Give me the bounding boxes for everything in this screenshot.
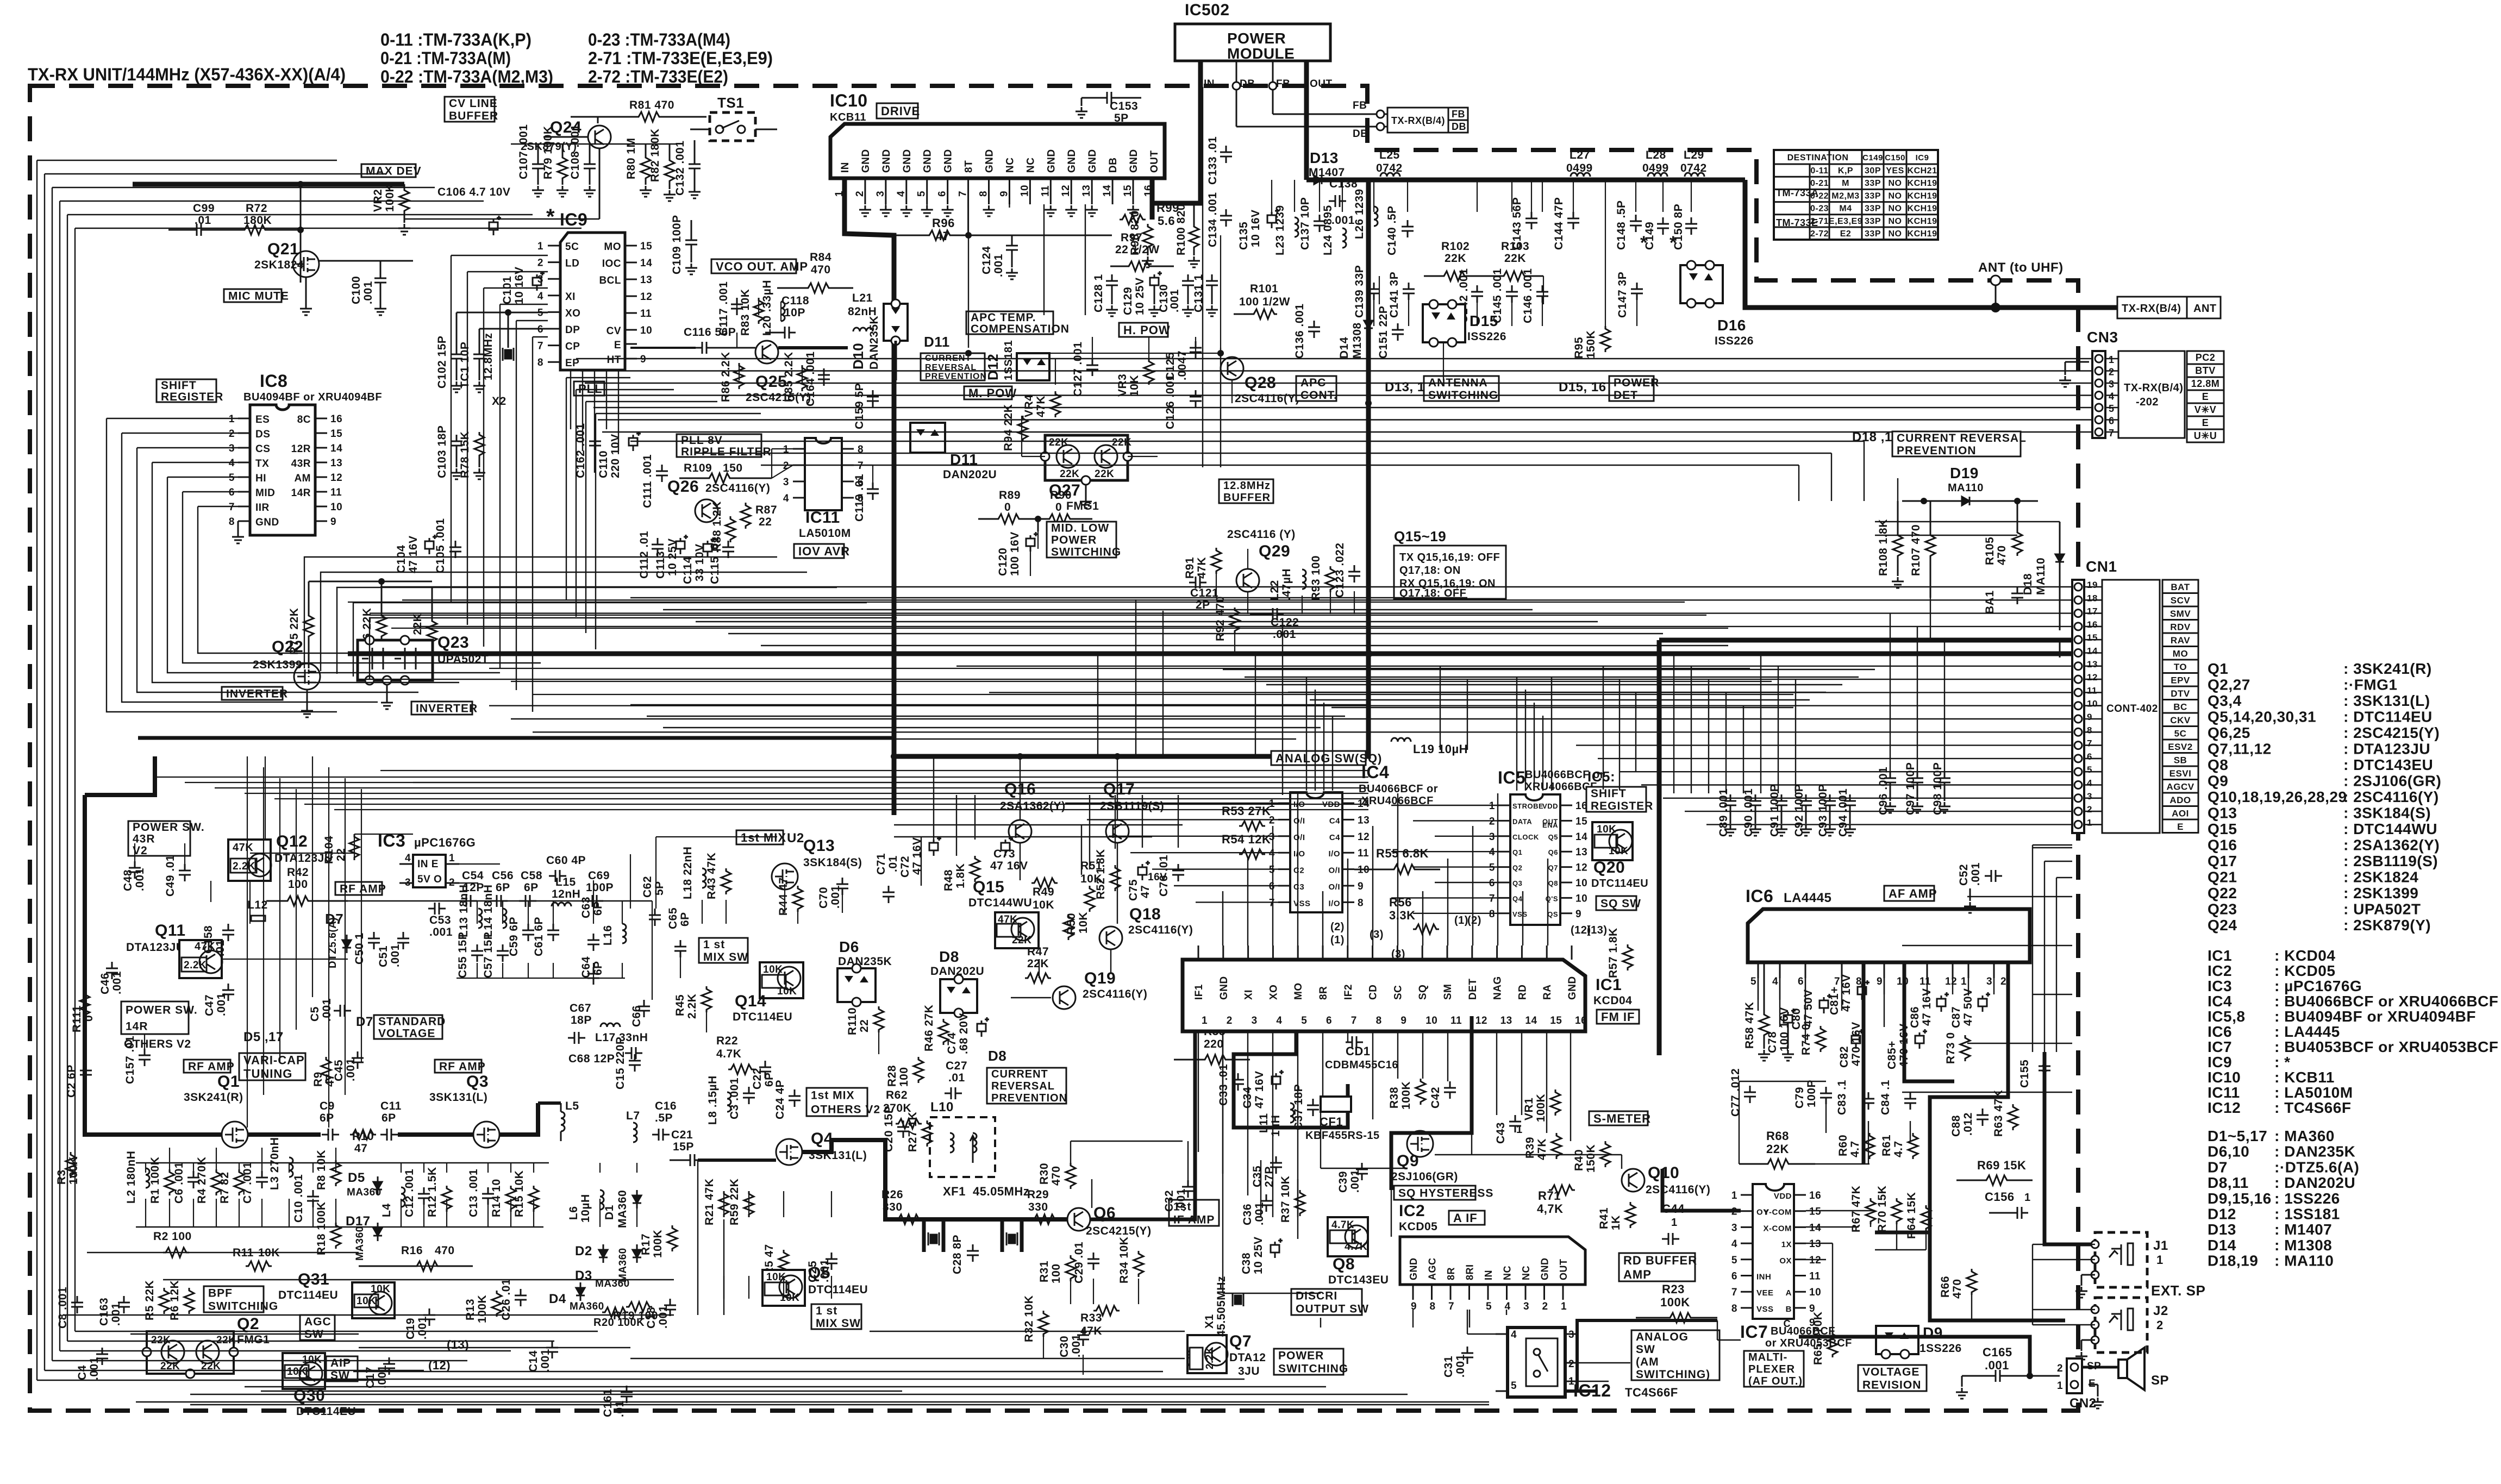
svg-text:R73 0: R73 0 — [1944, 1032, 1957, 1064]
svg-text:.5P: .5P — [655, 1112, 673, 1124]
SQ SW label — [1596, 896, 1636, 910]
svg-text::·DTZ5.6(A): :·DTZ5.6(A) — [2274, 1159, 2359, 1175]
APC TEMP COMPENSATION label — [966, 311, 1053, 334]
svg-text:: 1SS226: : 1SS226 — [2274, 1190, 2340, 1207]
svg-text:REGISTER: REGISTER — [161, 391, 223, 403]
IC8 nested loops — [107, 418, 238, 419]
svg-text:BUFFER: BUFFER — [449, 110, 498, 122]
svg-text:C21: C21 — [671, 1129, 693, 1141]
POWER SW 43R V2 label — [128, 821, 190, 856]
svg-text:RA: RA — [1542, 985, 1553, 1000]
svg-text:PLL: PLL — [578, 382, 603, 396]
svg-text:A IF: A IF — [1453, 1211, 1478, 1225]
svg-text:(13): (13) — [1587, 924, 1608, 936]
svg-text:L6: L6 — [567, 1206, 580, 1220]
svg-text:IC2: IC2 — [1399, 1202, 1425, 1220]
audio amp IC6 chip — [1748, 909, 2030, 962]
svg-text:O/I: O/I — [1328, 882, 1340, 892]
svg-text:AF AMP: AF AMP — [1889, 887, 1937, 900]
svg-text:IN E: IN E — [417, 859, 439, 870]
svg-text:.001: .001 — [992, 254, 1005, 277]
svg-text:22: 22 — [858, 1019, 871, 1032]
svg-text:22K: 22K — [1049, 437, 1068, 448]
svg-text:D3: D3 — [575, 1268, 592, 1283]
svg-text:L27: L27 — [1570, 149, 1590, 161]
RF row lower wires — [87, 1252, 359, 1253]
CN1 zone right verticals — [2032, 845, 2033, 1052]
svg-text:5: 5 — [1731, 1255, 1737, 1266]
svg-text:XI: XI — [565, 291, 576, 303]
svg-text:11: 11 — [1040, 185, 1051, 197]
svg-text:2: 2 — [854, 191, 866, 197]
svg-text:TX-RX(B/4): TX-RX(B/4) — [2124, 382, 2183, 394]
svg-text:POWER: POWER — [1278, 1350, 1324, 1362]
svg-text:R30: R30 — [1038, 1163, 1051, 1185]
svg-text:QS: QS — [1547, 910, 1558, 918]
svg-text:IN: IN — [1204, 78, 1215, 90]
svg-text:.001: .001 — [1175, 1188, 1187, 1212]
svg-text:RD BUFFER: RD BUFFER — [1623, 1254, 1697, 1267]
svg-text:Q3,4: Q3,4 — [2208, 692, 2242, 709]
svg-text:30P: 30P — [1865, 166, 1881, 176]
rf input thick bus — [85, 795, 222, 1135]
svg-text:GND: GND — [922, 149, 934, 173]
svg-text:C106 4.7 10V: C106 4.7 10V — [437, 186, 510, 198]
svg-text:SMV: SMV — [2170, 609, 2191, 619]
svg-text:11: 11 — [330, 487, 342, 498]
svg-text:C73: C73 — [993, 848, 1015, 860]
svg-text:C161: C161 — [602, 1389, 614, 1417]
svg-text:VR1: VR1 — [1523, 1098, 1535, 1120]
svg-text:IC5,8: IC5,8 — [2208, 1008, 2245, 1025]
svg-text:8: 8 — [1376, 1015, 1382, 1026]
svg-text:R34 10K: R34 10K — [1118, 1237, 1130, 1283]
svg-text:8T: 8T — [964, 160, 975, 173]
svg-text:10: 10 — [1425, 1015, 1437, 1026]
svg-text:GND: GND — [984, 149, 996, 173]
svg-text:IC10: IC10 — [830, 91, 868, 110]
svg-text:GND: GND — [1046, 149, 1057, 173]
CN3 feed lines — [576, 358, 2092, 359]
wire rail above R75-77 — [309, 581, 432, 583]
svg-text:47K: 47K — [233, 842, 253, 854]
svg-text:C101: C101 — [501, 276, 514, 304]
thick wire L5 to C16 — [538, 1101, 561, 1105]
svg-text:PLEXER: PLEXER — [1748, 1363, 1795, 1375]
svg-text:D9,15,16: D9,15,16 — [2208, 1190, 2272, 1207]
svg-text:7: 7 — [858, 460, 864, 472]
horizontal lines lower right to CN1 zone — [2033, 847, 2072, 848]
svg-text:: 3SK131(L): : 3SK131(L) — [2343, 692, 2430, 709]
svg-text:R12 1.5K: R12 1.5K — [426, 1167, 439, 1217]
svg-text:C59 6P: C59 6P — [508, 917, 520, 956]
svg-text:C20 15P: C20 15P — [883, 1106, 895, 1152]
IF area wires — [1139, 1219, 1174, 1220]
svg-text:C126 .001: C126 .001 — [1164, 374, 1177, 429]
svg-text:Q4: Q4 — [1512, 894, 1523, 903]
svg-text:R7 82: R7 82 — [218, 1172, 231, 1204]
svg-text:100P: 100P — [1805, 1080, 1818, 1107]
svg-text:MO: MO — [604, 241, 621, 253]
svg-text:2: 2 — [2087, 804, 2092, 815]
svg-text:MO: MO — [1293, 982, 1304, 1000]
svg-text:DS: DS — [255, 429, 270, 440]
svg-text:IC4: IC4 — [2208, 993, 2232, 1010]
svg-text:1: 1 — [2156, 1253, 2164, 1267]
svg-text:2.2K: 2.2K — [233, 861, 255, 872]
svg-text:: DTC114EU: : DTC114EU — [2343, 709, 2433, 725]
svg-text:150K: 150K — [1585, 330, 1597, 359]
svg-text:OUT: OUT — [1149, 150, 1160, 173]
svg-text:8: 8 — [1489, 909, 1495, 920]
svg-text:C82: C82 — [1838, 1046, 1850, 1068]
svg-text:I/O: I/O — [1328, 899, 1340, 908]
svg-text:D12: D12 — [2208, 1206, 2236, 1223]
svg-text:2SC4215(Y): 2SC4215(Y) — [746, 391, 811, 404]
svg-text:Q11: Q11 — [155, 922, 186, 940]
svg-text:3: 3 — [783, 477, 789, 488]
svg-text:4: 4 — [1511, 1329, 1517, 1341]
svg-text:.001: .001 — [429, 926, 453, 938]
svg-text:47 16V: 47 16V — [407, 535, 420, 573]
svg-text:NO: NO — [1889, 204, 1902, 214]
svg-text:5: 5 — [2109, 403, 2115, 414]
svg-text:10K: 10K — [777, 986, 797, 997]
svg-text:KCH19: KCH19 — [1908, 191, 1937, 201]
svg-text:11: 11 — [640, 308, 652, 320]
svg-text:C111 .001: C111 .001 — [641, 454, 654, 508]
svg-text:C120: C120 — [997, 548, 1009, 576]
svg-text:CS: CS — [255, 443, 270, 455]
svg-text:GND: GND — [1567, 976, 1578, 1000]
if amp bias leads — [1070, 1279, 1071, 1304]
svg-text:13: 13 — [1809, 1238, 1821, 1250]
transistor Q14 DTC114EU — [760, 962, 803, 998]
svg-text:C38: C38 — [1240, 1253, 1253, 1274]
svg-text:R100 820: R100 820 — [1175, 204, 1187, 255]
svg-text:O/I: O/I — [1328, 866, 1340, 875]
svg-text:: DTC143EU: : DTC143EU — [2343, 756, 2433, 773]
svg-text:GND: GND — [1540, 1258, 1550, 1281]
lines from IC4 left — [1065, 803, 1278, 804]
1st MIX OTHERS V2 label — [806, 1088, 867, 1116]
svg-text:4.7: 4.7 — [1849, 1141, 1861, 1157]
svg-text:R102: R102 — [1441, 240, 1470, 253]
svg-text:D18: D18 — [2022, 573, 2034, 595]
svg-text:470: 470 — [1050, 1166, 1062, 1186]
svg-text:NO: NO — [1889, 191, 1902, 201]
CN3 signal labels — [2187, 351, 2224, 364]
svg-text:6P: 6P — [524, 881, 539, 894]
svg-text:7: 7 — [1731, 1287, 1737, 1298]
svg-text:L16: L16 — [602, 925, 614, 945]
svg-text:SWITCHING): SWITCHING) — [1636, 1368, 1710, 1381]
svg-text:C6 .001: C6 .001 — [173, 1162, 185, 1204]
transistor Q28 2SC4116 — [1221, 357, 1243, 380]
svg-text:C134 .001: C134 .001 — [1206, 192, 1219, 247]
svg-text:APC TEMP.: APC TEMP. — [971, 311, 1036, 324]
svg-text:C105 .001: C105 .001 — [434, 518, 447, 573]
CN1 receptacle box CONT-402 — [2102, 580, 2160, 833]
capacitor C68 12P — [625, 1047, 642, 1059]
svg-text:M: M — [1842, 179, 1849, 188]
svg-text:L26 1239: L26 1239 — [1353, 189, 1366, 239]
svg-text:5: 5 — [1750, 976, 1756, 987]
transistor network Q12 DTA123JU — [228, 840, 271, 881]
svg-text:3: 3 — [2087, 791, 2092, 802]
svg-text:VDD: VDD — [1774, 1192, 1792, 1201]
svg-text:R42: R42 — [287, 866, 309, 879]
svg-text:R37 10K: R37 10K — [1279, 1176, 1292, 1223]
svg-text:C79: C79 — [1793, 1087, 1806, 1109]
svg-text:FB: FB — [1276, 78, 1290, 90]
svg-text:4: 4 — [1489, 847, 1495, 858]
svg-text:TS1: TS1 — [717, 95, 744, 111]
svg-text:1: 1 — [2057, 1380, 2063, 1392]
svg-text:C12 .001: C12 .001 — [403, 1169, 416, 1217]
svg-text:.001: .001 — [1168, 289, 1181, 312]
svg-text:C133 .01: C133 .01 — [1206, 136, 1219, 185]
svg-text:R27 1K: R27 1K — [906, 1112, 919, 1152]
svg-text:R60: R60 — [1837, 1135, 1849, 1156]
svg-text:C5: C5 — [309, 1006, 321, 1022]
svg-text:7: 7 — [1448, 1301, 1454, 1312]
svg-text:MID: MID — [255, 487, 275, 499]
svg-text:Q15~19: Q15~19 — [1394, 528, 1446, 544]
MID LOW POWER SWITCHING label — [1047, 522, 1116, 558]
svg-text:22K: 22K — [1095, 468, 1114, 480]
svg-text:C18: C18 — [645, 1307, 658, 1329]
svg-text:TX-RX(B/4): TX-RX(B/4) — [2122, 303, 2181, 315]
svg-text:7: 7 — [2087, 738, 2092, 749]
svg-text:150K: 150K — [1585, 1144, 1597, 1173]
svg-text:C137 10P: C137 10P — [1299, 197, 1311, 250]
svg-text:ISS226: ISS226 — [1715, 335, 1754, 347]
svg-text:C2: C2 — [1293, 866, 1304, 875]
power sw verticals — [265, 756, 266, 840]
svg-text:R45: R45 — [674, 994, 686, 1016]
svg-text:C81+: C81+ — [1828, 986, 1841, 1015]
svg-text:Q14: Q14 — [735, 992, 766, 1010]
svg-text:*: * — [1640, 233, 1648, 253]
svg-text:C24 4P: C24 4P — [774, 1080, 786, 1119]
ic11 wires — [772, 465, 793, 478]
svg-text:13: 13 — [1081, 185, 1092, 197]
svg-text:R82 180K: R82 180K — [649, 128, 661, 182]
svg-text:GND: GND — [1218, 976, 1230, 1000]
svg-text:C60 4P: C60 4P — [546, 854, 586, 867]
svg-text:OTHERS V2: OTHERS V2 — [811, 1104, 880, 1116]
AF area mesh — [1758, 978, 1759, 1000]
svg-text:.68 20V: .68 20V — [958, 1013, 970, 1054]
DRIVE label — [877, 103, 918, 118]
svg-text:R93 100: R93 100 — [1310, 555, 1322, 600]
svg-text:IC5: IC5 — [1498, 768, 1525, 787]
svg-text:ADO: ADO — [2169, 795, 2191, 805]
driver IC10 chip — [830, 124, 1165, 178]
svg-text:C28 8P: C28 8P — [951, 1235, 964, 1274]
wire Q19 base — [1011, 997, 1051, 998]
svg-text:C10 .001: C10 .001 — [292, 1174, 305, 1223]
ground Q23 — [386, 685, 388, 698]
mid low power wires — [1037, 531, 1039, 549]
svg-text:C33 .01: C33 .01 — [1217, 1064, 1230, 1106]
switch IC12 TC4S66F — [1508, 1328, 1565, 1397]
svg-text:CD1: CD1 — [1346, 1044, 1371, 1058]
svg-text:5: 5 — [2087, 765, 2092, 775]
svg-text:RAV: RAV — [2171, 635, 2190, 646]
svg-text:C7 .001: C7 .001 — [241, 1162, 254, 1204]
svg-text:C149: C149 — [1862, 153, 1883, 162]
squelch area wires — [1322, 1031, 1323, 1097]
svg-text:IC6: IC6 — [2208, 1023, 2232, 1040]
svg-text:R1 100K: R1 100K — [149, 1157, 161, 1204]
svg-text:R31: R31 — [1038, 1261, 1051, 1282]
svg-text:.001: .001 — [1985, 1358, 2009, 1372]
svg-text:5C: 5C — [2174, 729, 2187, 739]
svg-text:R96: R96 — [932, 216, 955, 230]
12.8MHz BUFFER label — [1219, 479, 1273, 503]
svg-text:C96 .001: C96 .001 — [1877, 767, 1890, 815]
svg-text:6P: 6P — [320, 1112, 334, 1124]
svg-text:3: 3 — [1489, 831, 1495, 843]
svg-text:R58 47K: R58 47K — [1743, 1002, 1756, 1049]
svg-text:R110: R110 — [846, 1007, 859, 1035]
thick IF amp to IC1 — [1090, 1031, 1195, 1219]
svg-text:X1: X1 — [1203, 1314, 1216, 1329]
svg-text:.01: .01 — [614, 1400, 626, 1417]
svg-text:R107 470: R107 470 — [1910, 524, 1922, 576]
svg-text:Q6: Q6 — [1548, 848, 1558, 856]
svg-text:R38: R38 — [1388, 1087, 1400, 1109]
svg-text:47 50V: 47 50V — [1802, 989, 1815, 1027]
svg-text:47 16V: 47 16V — [990, 860, 1028, 872]
svg-text:10 25V: 10 25V — [1134, 277, 1146, 315]
svg-text:5: 5 — [1511, 1380, 1517, 1392]
svg-text:EXT. SP: EXT. SP — [2151, 1282, 2205, 1299]
thick wire to Q3 — [398, 1132, 473, 1137]
svg-text:7: 7 — [958, 191, 969, 197]
svg-text:IC502: IC502 — [1185, 1, 1230, 19]
svg-text:C139 33P: C139 33P — [1353, 265, 1366, 318]
AGC SW label — [300, 1315, 335, 1340]
thick wire module IN — [1152, 61, 1201, 203]
svg-text:Q24: Q24 — [2208, 917, 2237, 934]
svg-text:E: E — [614, 340, 621, 351]
svg-text:5: 5 — [1301, 1015, 1307, 1026]
svg-text:BTV: BTV — [2195, 365, 2216, 376]
svg-text:C53: C53 — [429, 914, 451, 926]
svg-text:10: 10 — [1019, 185, 1030, 197]
svg-text:OUT: OUT — [1310, 78, 1333, 90]
svg-text:RF AMP: RF AMP — [340, 883, 386, 896]
svg-text:(2): (2) — [1467, 915, 1481, 926]
power det wires — [1443, 342, 1444, 380]
svg-text:.001: .001 — [362, 281, 374, 304]
Q11 Q12 wires — [250, 853, 354, 854]
svg-text:: LA4445: : LA4445 — [2274, 1023, 2340, 1040]
svg-text:22K: 22K — [1504, 252, 1526, 265]
svg-text:1SS226: 1SS226 — [1919, 1342, 1962, 1355]
AF AMP label — [1884, 886, 1934, 901]
wire Q24 drain — [597, 117, 599, 123]
svg-text:CKV: CKV — [2170, 715, 2191, 725]
svg-text:: 3SK184(S): : 3SK184(S) — [2343, 805, 2431, 822]
q4 bias leads — [723, 1191, 724, 1217]
svg-text:GND: GND — [902, 149, 913, 173]
svg-text:PLL 8V: PLL 8V — [681, 434, 723, 447]
svg-text:C47: C47 — [203, 994, 216, 1016]
RF AMP label Q3 — [435, 1060, 482, 1073]
svg-text:R78 15K: R78 15K — [459, 431, 471, 478]
svg-text:CURRENT REVERSAL: CURRENT REVERSAL — [1897, 432, 2027, 444]
svg-text:D14: D14 — [2208, 1237, 2236, 1254]
svg-text:C129: C129 — [1122, 287, 1134, 315]
svg-text:2: 2 — [537, 258, 543, 269]
svg-text:8C: 8C — [297, 414, 311, 425]
svg-text:Q7: Q7 — [1548, 864, 1558, 872]
svg-text:(3): (3) — [1370, 929, 1384, 941]
wire bundle between CN3 and lists — [630, 441, 1864, 442]
svg-text:R16: R16 — [401, 1244, 423, 1257]
svg-text:R55 6.8K: R55 6.8K — [1376, 847, 1429, 860]
lines from IC5 left — [1391, 805, 1498, 806]
svg-text:1K: 1K — [1610, 1215, 1622, 1230]
svg-text:NC: NC — [1502, 1266, 1513, 1280]
svg-text:ISS226: ISS226 — [1467, 330, 1506, 343]
svg-text:E: E — [2202, 391, 2209, 402]
svg-text:COMPENSATION: COMPENSATION — [971, 323, 1070, 335]
svg-text:47K: 47K — [1536, 1138, 1548, 1160]
dual FET Q23 UPA502T — [358, 640, 433, 680]
svg-text:C76 .01: C76 .01 — [1158, 855, 1170, 897]
svg-text:C74: C74 — [946, 1032, 958, 1054]
wire Q16 collector drop — [1020, 756, 1021, 820]
svg-text:CLOCK: CLOCK — [1512, 833, 1539, 841]
svg-text:C32: C32 — [1163, 1190, 1176, 1212]
svg-text:C99: C99 — [193, 202, 215, 215]
svg-text:C107 .001: C107 .001 — [517, 124, 530, 179]
A IF label — [1449, 1211, 1485, 1225]
svg-text:R53 27K: R53 27K — [1222, 804, 1271, 818]
svg-text:1.8K: 1.8K — [954, 863, 967, 888]
svg-text:E: E — [2202, 417, 2209, 428]
svg-text:DATA: DATA — [1512, 817, 1532, 825]
svg-text:C102 15P: C102 15P — [436, 336, 448, 389]
svg-text:1: 1 — [1731, 1190, 1737, 1201]
svg-text:NC: NC — [1521, 1266, 1531, 1280]
svg-text:CN3: CN3 — [2087, 329, 2118, 346]
svg-text:R89: R89 — [999, 489, 1021, 502]
svg-text:BPF: BPF — [208, 1287, 233, 1300]
svg-text:CN1: CN1 — [2086, 558, 2117, 575]
thick wire IC10 out — [1150, 178, 1155, 220]
outer dashed border — [30, 86, 2078, 1411]
svg-text:C57 15P: C57 15P — [482, 932, 495, 978]
svg-text:I/O: I/O — [1328, 849, 1340, 859]
mix area rails — [656, 836, 777, 837]
svg-text:XO: XO — [1268, 985, 1279, 1000]
svg-text:IC9: IC9 — [1916, 153, 1929, 162]
svg-text:4: 4 — [1505, 1301, 1511, 1312]
svg-text:47: 47 — [1139, 885, 1152, 898]
svg-text:R48: R48 — [942, 869, 955, 891]
svg-text:OUT: OUT — [1558, 1259, 1569, 1281]
RD BUFFER AMP label — [1619, 1253, 1695, 1281]
svg-text:C157 .01: C157 .01 — [124, 1036, 136, 1084]
svg-text:C116 56P: C116 56P — [684, 326, 736, 339]
svg-text:KBF455RS-15: KBF455RS-15 — [1305, 1130, 1380, 1142]
